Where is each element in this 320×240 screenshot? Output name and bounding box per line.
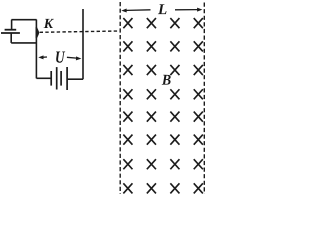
- flux symbol x (B into page) row 1 col 2: [147, 18, 156, 28]
- flux symbol x (B into page) row 5 col 2: [147, 112, 156, 122]
- field region right dashed boundary: [203, 3, 205, 195]
- L dimension left arrow: [121, 9, 150, 13]
- battery bar tall 1: [56, 67, 58, 89]
- svg-text:K: K: [43, 17, 55, 32]
- flux symbol x (B into page) row 8 col 3: [170, 183, 179, 193]
- U dimension left arrow: [38, 55, 47, 59]
- flux symbol x (B into page) row 2 col 2: [147, 41, 156, 51]
- flux symbol x (B into page) row 8 col 2: [147, 183, 156, 193]
- flux symbol x (B into page) row 4 col 3: [170, 89, 179, 99]
- wire: bottom edge of source box: [11, 42, 36, 44]
- flux symbol x (B into page) row 1 col 4: [194, 18, 203, 28]
- flux symbol x (B into page) row 3 col 4: [194, 65, 203, 75]
- field region left dashed boundary: [119, 2, 121, 194]
- flux symbol x (B into page) row 3 col 2: [147, 65, 156, 75]
- flux symbol x (B into page) row 6 col 4: [194, 135, 203, 145]
- flux symbol x (B into page) row 7 col 1: [123, 159, 132, 169]
- wire: battery left lead: [36, 77, 50, 79]
- wire: upper left edge of source box: [11, 20, 13, 30]
- wire: battery right lead: [68, 78, 83, 80]
- flux symbol x (B into page) row 6 col 2: [147, 135, 156, 145]
- flux symbol x (B into page) row 6 col 1: [123, 135, 132, 145]
- flux symbol x (B into page) row 7 col 2: [147, 159, 156, 169]
- switch K contact wedge: [36, 27, 40, 38]
- flux symbol x (B into page) row 4 col 4: [194, 89, 203, 99]
- flux symbol x (B into page) row 8 col 1: [123, 183, 132, 193]
- flux symbol x (B into page) row 2 col 4: [194, 41, 203, 51]
- flux symbol x (B into page) row 8 col 4: [194, 183, 203, 193]
- flux symbol x (B into page) row 5 col 3: [170, 112, 179, 122]
- flux symbol x (B into page) row 3 col 3: [170, 65, 179, 75]
- wire: lower left edge of source box: [10, 33, 12, 43]
- flux symbol x (B into page) row 1 col 1: [123, 18, 132, 28]
- wire: top edge of source box: [11, 19, 36, 21]
- svg-text:U: U: [55, 48, 65, 67]
- battery bar short 2: [60, 71, 62, 86]
- flux symbol x (B into page) row 6 col 3: [170, 135, 179, 145]
- L dimension right arrow: [175, 8, 202, 12]
- flux symbol x (B into page) row 5 col 4: [194, 112, 203, 122]
- svg-text:B: B: [161, 73, 171, 89]
- wire: right vertical plate wire: [82, 9, 84, 79]
- flux symbol x (B into page) row 3 col 1: [123, 65, 132, 75]
- dashed trajectory line from switch into field region: [40, 31, 120, 32]
- flux symbol x (B into page) row 1 col 3: [170, 18, 179, 28]
- svg-text:L: L: [157, 2, 167, 18]
- U dimension right arrow: [67, 56, 82, 60]
- wire: right edge of source box continuing down to battery: [35, 20, 37, 79]
- battery bar short 1: [50, 71, 52, 86]
- flux symbol x (B into page) row 4 col 2: [147, 89, 156, 99]
- battery bar tall 2: [66, 67, 68, 90]
- cell plate long (positive): [1, 32, 20, 34]
- cell plate short thick (negative): [5, 29, 17, 31]
- flux symbol x (B into page) row 5 col 1: [123, 112, 132, 122]
- flux symbol x (B into page) row 7 col 4: [194, 159, 203, 169]
- flux symbol x (B into page) row 2 col 3: [170, 41, 179, 51]
- flux symbol x (B into page) row 7 col 3: [170, 159, 179, 169]
- flux symbol x (B into page) row 4 col 1: [123, 89, 132, 99]
- flux symbol x (B into page) row 2 col 1: [123, 41, 132, 51]
